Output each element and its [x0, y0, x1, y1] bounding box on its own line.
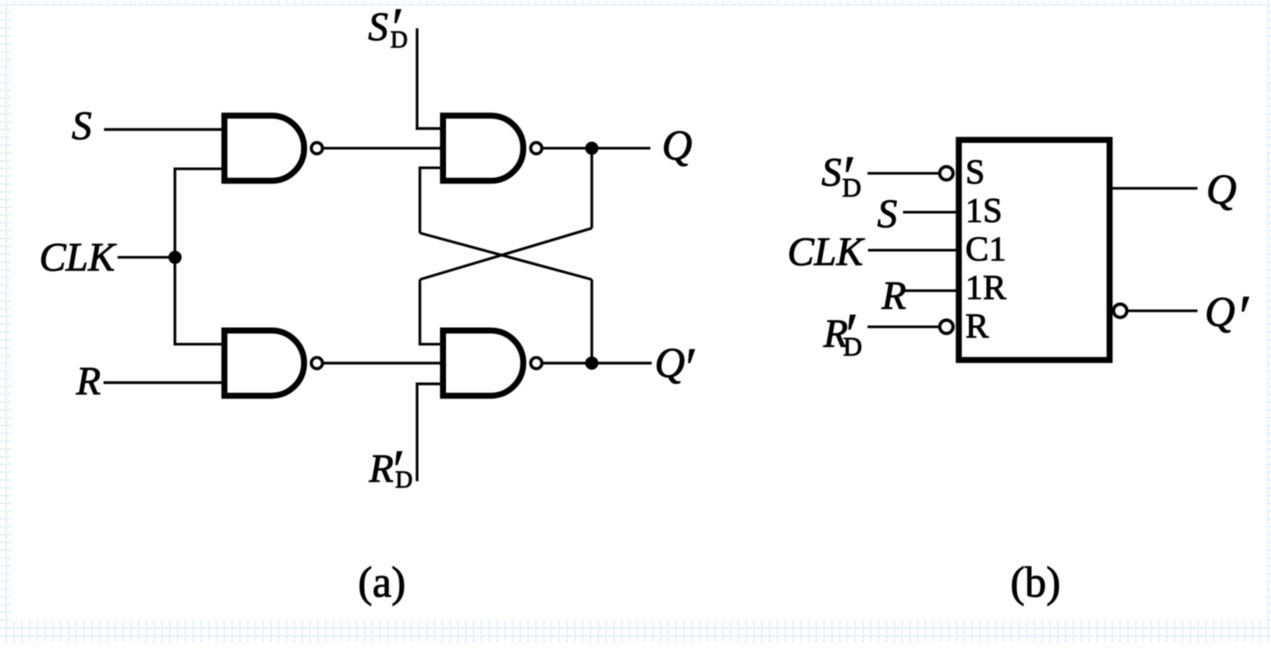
svg-text:D: D: [843, 331, 862, 361]
svg-text:S: S: [72, 103, 92, 148]
svg-text:C1: C1: [965, 230, 1006, 269]
svg-text:(a): (a): [358, 560, 406, 607]
svg-text:1S: 1S: [965, 191, 1002, 230]
svg-text:S: S: [965, 153, 984, 192]
svg-text:CLK: CLK: [39, 234, 117, 279]
svg-text:(b): (b): [1010, 560, 1060, 607]
svg-text:R: R: [75, 358, 100, 403]
svg-text:Q: Q: [655, 341, 685, 387]
svg-text:Q: Q: [1206, 168, 1236, 214]
svg-text:D: D: [842, 172, 861, 202]
svg-text:Q: Q: [662, 123, 692, 169]
svg-text:′: ′: [682, 336, 696, 401]
svg-text:D: D: [390, 28, 407, 54]
svg-text:S: S: [877, 191, 897, 236]
svg-text:R: R: [965, 307, 989, 346]
svg-text:S: S: [368, 4, 388, 49]
svg-text:CLK: CLK: [787, 229, 865, 274]
svg-text:R: R: [881, 273, 906, 318]
svg-text:D: D: [395, 468, 412, 494]
svg-text:′: ′: [1235, 284, 1250, 352]
svg-text:Q: Q: [1205, 290, 1235, 336]
svg-text:1R: 1R: [965, 268, 1007, 307]
